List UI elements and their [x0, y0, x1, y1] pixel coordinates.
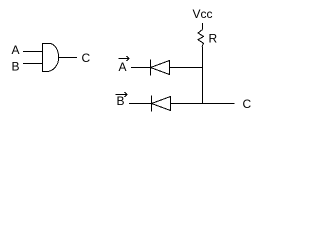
svg-text:R: R [209, 32, 218, 46]
input B vector arrow [116, 94, 128, 96]
diode D1 cathode bar [150, 60, 152, 76]
wire: input B to gate [23, 63, 42, 65]
svg-text:A: A [12, 43, 20, 57]
svg-text:B: B [117, 94, 125, 108]
svg-text:B: B [12, 60, 20, 74]
svg-text:C: C [82, 51, 91, 65]
resistor R [198, 30, 204, 47]
diode D2 cathode bar [151, 96, 153, 112]
svg-text:A: A [119, 60, 127, 74]
diode D1 triangle [151, 61, 170, 75]
diode D2 triangle [152, 97, 171, 111]
input A vector arrow [119, 58, 130, 60]
svg-text:C: C [243, 97, 252, 111]
wire: diode D2 through node to output C [171, 103, 235, 105]
svg-text:Vcc: Vcc [193, 7, 213, 21]
AND gate U1 body [43, 44, 59, 72]
wire: Vcc to resistor [202, 23, 204, 30]
wire: gate output to C [58, 57, 77, 59]
wire: diode D1 to node [170, 67, 204, 69]
wire: resistor down to output node [202, 47, 204, 105]
wire: B to diode D2 [129, 103, 151, 105]
wire: input A to gate [23, 51, 42, 53]
wire: A to diode D1 [131, 67, 151, 69]
